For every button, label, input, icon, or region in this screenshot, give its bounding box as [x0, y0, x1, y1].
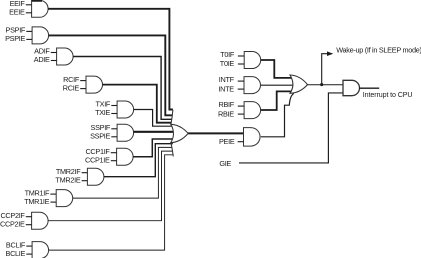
wire RCIF gate output to OR1	[103, 85, 172, 123]
svg-text:TMR1IE: TMR1IE	[24, 197, 49, 206]
TXIF input stub	[111, 105, 117, 107]
AND gate U5 (TXIF/TXIE)	[117, 101, 133, 118]
wire OR2 output to final AND gate	[308, 84, 344, 86]
AND gate U3 (ADIF/ADIE)	[57, 48, 74, 65]
AND gate U11 (BCLIF/BCLIE)	[32, 242, 49, 258]
svg-text:RCIE: RCIE	[63, 83, 80, 92]
wire TMR1IF gate output to OR1	[73, 147, 173, 198]
AND gate U6 (SSPIF/SSPIE)	[117, 124, 133, 141]
EEIF gate top edge accent	[32, 0, 42, 2]
svg-text:EEIE: EEIE	[9, 8, 25, 17]
svg-text:PSPIE: PSPIE	[5, 34, 25, 43]
wire junction to wake-up arrow	[322, 54, 328, 85]
wire SSPIF gate output to OR1	[134, 131, 175, 133]
wire INTF gate output to OR2	[261, 84, 295, 86]
wire final AND output	[359, 87, 379, 89]
INTF input stub	[238, 80, 244, 82]
svg-text:INTE: INTE	[218, 84, 234, 93]
wire TMR2IF gate output to OR1	[104, 144, 173, 177]
BCLIF input stub	[26, 245, 32, 247]
svg-text:TMR2IE: TMR2IE	[55, 175, 80, 184]
svg-text:SSPIE: SSPIE	[90, 132, 110, 141]
RCIF input stub	[80, 80, 86, 82]
svg-text:RBIE: RBIE	[218, 109, 234, 118]
PSPIE input stub	[26, 38, 32, 40]
PEIE input stub	[238, 141, 244, 143]
OR gate U17 (global interrupt OR)	[290, 75, 308, 93]
svg-text:PEIE: PEIE	[219, 137, 235, 146]
AND gate U15 (RBIF/RBIE)	[244, 102, 261, 119]
AND gate U9 (TMR1IF/TMR1IE)	[56, 190, 72, 207]
wire CCP2IF gate output to OR1	[48, 151, 173, 221]
CCP1IF input stub	[111, 152, 117, 154]
EEIE input stub	[26, 12, 32, 14]
TMR1IF input stub	[50, 193, 56, 195]
svg-text:BCLIE: BCLIE	[6, 249, 26, 258]
svg-text:T0IE: T0IE	[220, 59, 235, 68]
svg-text:RBIF: RBIF	[218, 100, 234, 109]
AND gate U4 (RCIF/RCIE)	[86, 76, 103, 93]
svg-text:CCP1IE: CCP1IE	[85, 155, 110, 164]
junction node	[320, 83, 323, 86]
TMR1IE input stub	[50, 201, 56, 203]
wire EEIF gate output to OR1	[48, 9, 173, 110]
svg-text:Interrupt to CPU: Interrupt to CPU	[363, 91, 413, 99]
AND gate U10 (CCP2IF/CCP2IE)	[32, 212, 48, 229]
EEIF input stub	[26, 4, 32, 6]
arrowhead wake-up	[327, 51, 333, 56]
wire RBIF gate output to OR2	[261, 91, 292, 110]
wire T0IF gate output to OR2	[261, 60, 292, 78]
svg-text:GIE: GIE	[219, 159, 231, 168]
SSPIF input stub	[111, 128, 117, 130]
AND gate U18 (interrupt to CPU)	[343, 80, 359, 95]
svg-text:Wake-up (If in SLEEP mode): Wake-up (If in SLEEP mode)	[336, 45, 421, 54]
RCIE input stub	[80, 88, 86, 90]
svg-text:TXIE: TXIE	[95, 108, 110, 117]
AND gate U16 (PEIE)	[244, 128, 261, 147]
AND gate U2 (PSPIF/PSPIE)	[32, 27, 48, 44]
wire GIE to final AND gate	[239, 93, 343, 163]
wire PEIE gate output to OR2 (curved entry)	[261, 94, 294, 137]
AND gate U13 (T0IF/T0IE)	[244, 52, 260, 69]
wire PSPIF gate output to OR1	[49, 35, 173, 115]
svg-text:CCP2IE: CCP2IE	[0, 219, 25, 228]
CCP2IF input stub	[26, 216, 32, 218]
wire CCP1IF gate output to OR1	[133, 139, 174, 157]
TMR2IE input stub	[82, 180, 88, 182]
SSPIE input stub	[111, 136, 117, 138]
wire OR1 output to PEIE gate	[188, 132, 243, 134]
svg-text:INTF: INTF	[219, 75, 235, 84]
wire ADIF gate output to OR1	[73, 57, 172, 120]
AND gate U14 (INTF/INTE)	[244, 77, 261, 94]
CCP2IE input stub	[26, 224, 32, 226]
TXIE input stub	[111, 113, 117, 115]
svg-text:ADIE: ADIE	[34, 55, 50, 64]
BCLIE input stub	[26, 253, 32, 255]
RBIE input stub	[238, 113, 244, 115]
TMR2IF input stub	[82, 172, 88, 174]
PSPIF input stub	[26, 30, 32, 32]
CCP1IE input stub	[111, 160, 117, 162]
T0IF input stub	[238, 55, 244, 57]
RBIF input stub	[238, 105, 244, 107]
wire TXIF gate output to OR1	[134, 110, 172, 127]
ADIE input stub	[51, 60, 57, 62]
svg-text:T0IF: T0IF	[220, 50, 235, 59]
INTE input stub	[238, 88, 244, 90]
wire BCLIF gate output to OR1	[49, 155, 174, 250]
ADIF input stub	[51, 52, 57, 54]
AND gate U7 (CCP1IF/CCP1IE)	[117, 148, 133, 165]
AND gate U8 (TMR2IF/TMR2IE)	[87, 168, 104, 185]
OR gate U12 (peripheral interrupt OR)	[171, 124, 188, 142]
T0IE input stub	[238, 63, 244, 65]
AND gate U1 (EEIF/EEIE)	[32, 0, 48, 17]
